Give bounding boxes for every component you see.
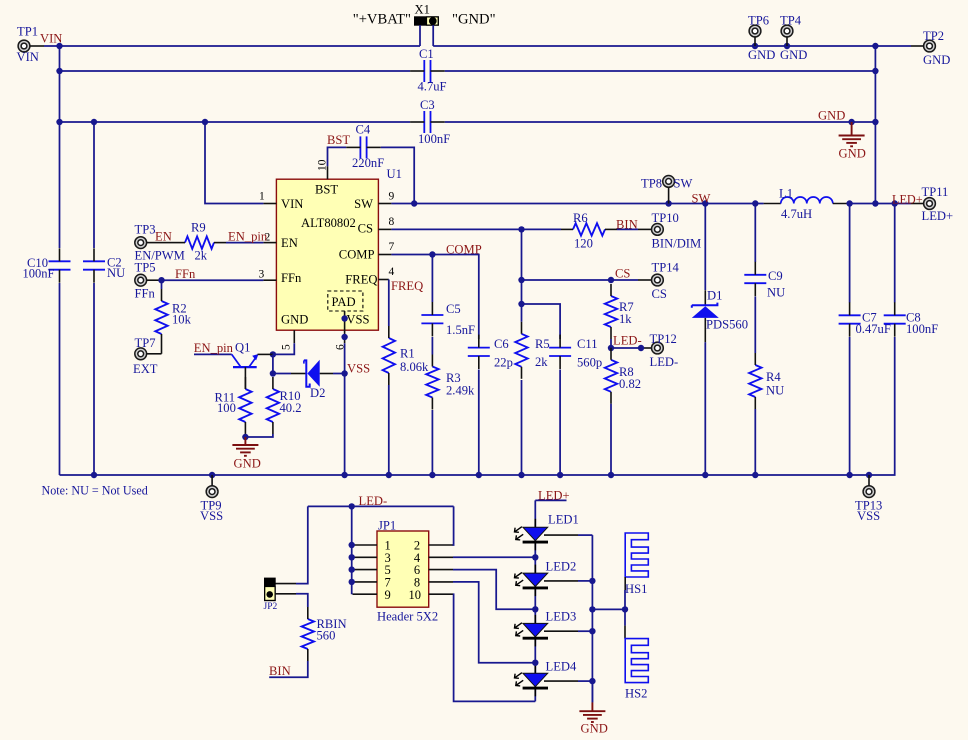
junction vss d2: [341, 370, 347, 376]
wire C7 column: [849, 204, 851, 303]
svg-text:LED2: LED2: [546, 560, 577, 574]
pin JP1-9 stub: [353, 593, 378, 595]
junction TP4 stub: [784, 43, 790, 49]
wire vertical x94: [93, 122, 95, 248]
junction Q1 emitter node: [270, 351, 276, 357]
svg-text:TP12: TP12: [650, 332, 677, 346]
power port GND bottom: [579, 681, 607, 735]
svg-text:NU: NU: [767, 286, 785, 300]
inductor L1: [764, 187, 850, 222]
pin JP2-1 stub: [275, 583, 296, 585]
wire LED1 pad pin: [544, 534, 578, 536]
junction pad node: [341, 315, 347, 321]
wire R9 to EN pin: [226, 242, 263, 244]
svg-text:"+VBAT": "+VBAT": [353, 12, 411, 28]
junction C8 drop: [892, 200, 898, 206]
svg-text:4.7uH: 4.7uH: [781, 207, 812, 221]
junction bus C2: [91, 472, 97, 478]
junction LED- JP1: [349, 503, 355, 509]
wire C9 top: [754, 204, 756, 263]
svg-text:Note: NU = Not Used: Note: NU = Not Used: [42, 484, 148, 498]
junction C7 drop: [846, 200, 852, 206]
svg-text:GND: GND: [818, 109, 845, 123]
svg-text:CS: CS: [652, 287, 667, 301]
capacitor C11: [549, 335, 602, 370]
svg-text:R4: R4: [766, 370, 781, 384]
junction D1 drop: [702, 200, 708, 206]
junction HS: [622, 606, 628, 612]
junction bus D1: [702, 472, 708, 478]
pin 3 stub: [263, 279, 276, 281]
junction LED- TP12: [638, 345, 644, 351]
svg-text:7: 7: [389, 241, 395, 253]
svg-text:EN_pin: EN_pin: [228, 230, 268, 244]
wire row3 right: [445, 121, 876, 123]
svg-text:TP11: TP11: [922, 185, 949, 199]
svg-text:BST: BST: [327, 133, 350, 147]
wire R3 to bus: [431, 410, 433, 475]
pin 1 stub: [263, 203, 276, 205]
diode D1: [692, 289, 748, 343]
junction bus TP13: [866, 472, 872, 478]
junction LED- node: [608, 345, 614, 351]
svg-text:FFn: FFn: [175, 267, 196, 281]
svg-text:CS: CS: [358, 222, 373, 236]
svg-text:BIN/DIM: BIN/DIM: [652, 237, 702, 251]
svg-text:R9: R9: [191, 221, 206, 235]
heatsink HS2: [625, 609, 648, 700]
svg-text:120: 120: [574, 237, 593, 251]
svg-text:4: 4: [389, 266, 395, 278]
wire D2 left: [273, 373, 291, 375]
svg-text:Header 5X2: Header 5X2: [377, 610, 438, 624]
test point TP4: [780, 14, 807, 63]
svg-text:100nF: 100nF: [23, 267, 55, 281]
wire R2 to TP7: [161, 346, 163, 354]
wire vertical x59: [59, 46, 61, 248]
junction BST drop on SW: [411, 200, 417, 206]
test point TP8: [641, 176, 693, 204]
junction right v LED3: [589, 628, 595, 634]
svg-text:560p: 560p: [577, 356, 602, 370]
svg-text:LED-: LED-: [650, 355, 679, 369]
pin JP1-5 stub: [353, 569, 378, 571]
wire GND pin: [273, 343, 294, 354]
svg-text:ALT80802: ALT80802: [301, 216, 356, 230]
wire row2 left: [60, 70, 411, 72]
svg-text:TP14: TP14: [652, 261, 680, 275]
svg-text:C3: C3: [420, 98, 435, 112]
junction C9 drop: [752, 200, 758, 206]
capacitor C9: [744, 262, 785, 300]
svg-text:LED+: LED+: [922, 209, 954, 223]
wire R4 to bus: [754, 409, 756, 475]
svg-text:X1: X1: [415, 3, 430, 17]
wire C7 to bus: [849, 337, 851, 475]
capacitor C4: [346, 123, 384, 171]
svg-text:9: 9: [389, 191, 395, 203]
connector X1: [415, 3, 439, 26]
junction bus C7: [846, 472, 852, 478]
junction CS row2: [518, 277, 524, 283]
test point TP7: [133, 336, 158, 376]
wire R8 to bus: [610, 404, 612, 475]
connector JP1: [377, 519, 438, 624]
svg-text:U1: U1: [387, 167, 402, 181]
svg-text:8.06k: 8.06k: [400, 360, 429, 374]
junction vss node: [341, 334, 347, 340]
test point TP6: [748, 14, 775, 63]
svg-text:GND: GND: [923, 53, 950, 67]
svg-text:C11: C11: [577, 337, 598, 351]
wire GND top: [433, 45, 911, 47]
junction bus VSS: [341, 472, 347, 478]
wire FREQ: [388, 280, 390, 327]
svg-text:10: 10: [409, 588, 422, 602]
wire X1 pin1: [419, 25, 421, 46]
wire R6 to TP10: [617, 228, 638, 230]
junction LED node3: [532, 660, 538, 666]
svg-text:SW: SW: [674, 177, 693, 191]
capacitor C5: [421, 302, 475, 337]
resistor R9: [173, 221, 226, 263]
LED LED3: [515, 610, 577, 647]
wire LED- to TP12: [611, 347, 638, 349]
svg-text:Q1: Q1: [235, 341, 250, 355]
svg-text:LED3: LED3: [546, 610, 577, 624]
svg-text:HS2: HS2: [625, 687, 647, 701]
wire COMP: [391, 255, 478, 340]
svg-text:EN_pin: EN_pin: [194, 341, 234, 355]
connector JP2: [264, 578, 278, 612]
svg-text:CS: CS: [615, 267, 630, 281]
junction row3 x94: [91, 119, 97, 125]
capacitor C1: [410, 47, 446, 94]
junction R7 top: [608, 277, 614, 283]
wire CS to TP14: [522, 279, 639, 281]
svg-text:GND: GND: [748, 48, 775, 62]
resistor R8: [605, 348, 641, 404]
capacitor C2: [83, 248, 125, 282]
svg-text:R5: R5: [535, 337, 550, 351]
junction bus C6: [476, 472, 482, 478]
pin 7 stub: [378, 254, 391, 256]
junction bus R4: [752, 472, 758, 478]
test point TP11: [911, 185, 953, 223]
wire RBIN to BIN: [269, 661, 308, 677]
svg-text:C9: C9: [768, 269, 783, 283]
power port GND Q1: [232, 437, 260, 471]
svg-text:PDS560: PDS560: [706, 318, 748, 332]
test point TP9: [200, 475, 223, 523]
svg-text:3: 3: [259, 269, 265, 281]
junction row2 left: [56, 68, 62, 74]
test point TP12: [650, 332, 679, 369]
svg-text:C6: C6: [494, 337, 509, 351]
svg-text:8: 8: [389, 216, 395, 228]
svg-text:1k: 1k: [619, 312, 632, 326]
test point TP14: [652, 261, 680, 302]
test point TP13: [855, 475, 882, 523]
junction LED node2: [532, 606, 538, 612]
wire LED2 pad pin: [544, 580, 578, 582]
svg-text:LED-: LED-: [613, 334, 642, 348]
pin 10 stub: [327, 166, 329, 179]
svg-text:2.49k: 2.49k: [446, 384, 475, 398]
wire LED- to JP2: [296, 506, 308, 583]
wire LED string: [534, 500, 536, 701]
pin JP1-10 stub: [429, 593, 453, 595]
svg-text:100: 100: [217, 401, 236, 415]
svg-text:FREQ: FREQ: [391, 279, 423, 293]
svg-text:JP1: JP1: [378, 519, 396, 533]
svg-text:"GND": "GND": [452, 12, 496, 28]
wire FFn: [160, 279, 263, 281]
svg-text:40.2: 40.2: [280, 401, 302, 415]
junction R10 D2: [270, 370, 276, 376]
junction COMP: [429, 251, 435, 257]
svg-text:100nF: 100nF: [418, 132, 450, 146]
wire C5 to R3: [431, 337, 433, 355]
wire VSS pin to bus: [344, 343, 346, 475]
svg-text:NU: NU: [107, 266, 125, 280]
svg-text:TP6: TP6: [748, 14, 769, 28]
wire LED+ label stub: [535, 499, 566, 501]
wire HS tap: [592, 608, 625, 610]
wire LED right vertical: [591, 535, 593, 702]
wire C8 column: [894, 204, 896, 303]
pin 8 stub: [378, 228, 391, 230]
svg-text:SW: SW: [354, 197, 373, 211]
junction jp1 left: [349, 554, 355, 560]
svg-text:2k: 2k: [195, 249, 208, 263]
junction row3 x59: [56, 119, 62, 125]
svg-text:1: 1: [259, 191, 265, 203]
svg-text:BST: BST: [315, 183, 338, 197]
junction bus C11: [557, 472, 563, 478]
svg-text:EN: EN: [155, 230, 172, 244]
svg-text:VIN: VIN: [281, 197, 303, 211]
pin 2 stub: [263, 242, 276, 244]
resistor R4: [749, 353, 784, 409]
pin JP1-3 stub: [353, 556, 378, 558]
LED LED4: [515, 660, 577, 697]
resistor RBIN: [302, 607, 347, 661]
heatsink HS1: [625, 533, 648, 609]
resistor R6: [561, 211, 617, 251]
resistor R2: [155, 280, 191, 346]
svg-text:100nF: 100nF: [906, 322, 938, 336]
svg-text:TP4: TP4: [780, 14, 802, 28]
junction TP6 stub: [752, 43, 758, 49]
LED LED2: [515, 560, 577, 597]
test point TP2: [911, 29, 950, 67]
svg-text:TP8: TP8: [641, 177, 662, 191]
wire R10 bottom: [245, 434, 273, 437]
pin JP1-6 stub: [429, 569, 453, 571]
wire C4 to SW: [381, 147, 414, 203]
svg-text:PAD: PAD: [332, 295, 356, 309]
svg-text:TP7: TP7: [135, 336, 156, 350]
junction jp1 left: [349, 542, 355, 548]
wire D1 top: [704, 204, 706, 291]
svg-text:C4: C4: [356, 123, 371, 137]
svg-text:LED1: LED1: [548, 513, 579, 527]
svg-text:TP2: TP2: [923, 29, 944, 43]
pin JP1-4 stub: [429, 556, 453, 558]
wire R11 bottom: [244, 434, 246, 437]
svg-text:GND: GND: [581, 722, 608, 736]
junction LED node1: [532, 554, 538, 560]
resistor R10: [267, 377, 302, 434]
pad PAD dashed box: [328, 291, 363, 311]
svg-text:C5: C5: [446, 302, 461, 316]
svg-text:VIN: VIN: [17, 50, 39, 64]
junction row3 x205: [202, 119, 208, 125]
test point TP3: [135, 223, 185, 263]
wire BST: [328, 147, 347, 166]
capacitor C3: [410, 98, 450, 146]
resistor R11: [215, 377, 252, 434]
junction R11 gnd: [242, 434, 248, 440]
wire LED4 pad pin: [544, 680, 578, 682]
wire R1 to bus: [388, 385, 390, 475]
wire C11 tap: [522, 304, 561, 339]
svg-text:GND: GND: [839, 147, 866, 161]
svg-text:L1: L1: [779, 187, 793, 201]
svg-text:R6: R6: [573, 211, 588, 225]
pin JP1-7 stub: [353, 581, 378, 583]
wire EN_pin at Q1: [194, 353, 232, 355]
test point TP10: [652, 211, 702, 251]
pin JP1-1 stub: [353, 544, 378, 546]
wire CS row: [391, 228, 561, 230]
junction at 875,46: [872, 43, 878, 49]
svg-text:VSS: VSS: [200, 509, 223, 523]
svg-text:22p: 22p: [494, 356, 513, 370]
power port GND top right: [839, 119, 866, 161]
wire pin4 to LED node1: [453, 556, 535, 558]
wire C9 to R4: [754, 297, 756, 354]
wire VIN branch x205: [205, 122, 263, 204]
junction at 59.5,46: [56, 43, 62, 49]
junction bus R8: [608, 472, 614, 478]
wire JP2 to RBIN: [296, 594, 308, 607]
pin 5 GND stub: [293, 330, 295, 343]
wire JP1 left pins vertical: [351, 506, 353, 594]
wire TP3 to R9: [160, 242, 173, 244]
svg-text:0.82: 0.82: [619, 377, 641, 391]
junction bus R5: [518, 472, 524, 478]
wire pin2 up: [453, 506, 454, 545]
wire D1 to bus: [704, 342, 706, 475]
wire R5 to bus: [521, 380, 523, 475]
transistor Q1: [232, 341, 273, 390]
wire VBAT top: [44, 45, 420, 47]
wire vertical x875: [874, 46, 876, 204]
wire row2 right: [445, 70, 876, 72]
svg-text:1.5nF: 1.5nF: [446, 323, 475, 337]
svg-text:D1: D1: [707, 289, 722, 303]
svg-text:560: 560: [317, 629, 336, 643]
svg-text:TP1: TP1: [17, 25, 38, 39]
junction x875 end: [872, 200, 878, 206]
svg-text:LED+: LED+: [892, 193, 923, 207]
svg-text:9: 9: [384, 588, 390, 602]
resistor R5: [515, 322, 549, 379]
svg-text:VSS: VSS: [346, 313, 369, 327]
junction CS x521: [518, 226, 524, 232]
svg-text:JP2: JP2: [264, 602, 278, 612]
svg-text:TP3: TP3: [135, 223, 156, 237]
junction right v LED4: [589, 678, 595, 684]
junction row3 x875: [872, 119, 878, 125]
wire pin8 to LED node3: [453, 582, 535, 663]
wire C11 to bus: [559, 370, 561, 476]
wire CS drop: [521, 229, 523, 321]
junction jp1 left: [349, 566, 355, 572]
junction bus R1: [386, 472, 392, 478]
svg-text:BIN: BIN: [616, 218, 638, 232]
junction TP8 stub: [665, 200, 671, 206]
svg-text:TP5: TP5: [135, 261, 156, 275]
svg-text:R1: R1: [400, 347, 415, 361]
test point TP5: [135, 261, 162, 301]
wire SW row: [391, 203, 763, 205]
svg-text:5: 5: [281, 344, 293, 350]
LED LED1: [515, 513, 579, 551]
svg-text:LED4: LED4: [546, 660, 577, 674]
pin JP2-2 stub: [275, 593, 296, 595]
svg-text:D2: D2: [310, 386, 325, 400]
wire LED+ row: [850, 203, 911, 205]
svg-text:GND: GND: [234, 457, 261, 471]
svg-text:SW: SW: [692, 192, 711, 206]
junction bus R3: [429, 472, 435, 478]
svg-text:GND: GND: [281, 313, 308, 327]
pin JP1-8 stub: [429, 581, 453, 583]
wire LED3 pad pin: [544, 630, 578, 632]
svg-text:GND: GND: [780, 48, 807, 62]
resistor R1: [383, 326, 429, 385]
svg-text:BIN: BIN: [269, 664, 291, 678]
pin JP1-2 stub: [429, 544, 453, 546]
svg-text:220nF: 220nF: [352, 156, 384, 170]
svg-text:FFn: FFn: [135, 287, 156, 301]
capacitor C8: [884, 302, 939, 336]
resistor R7: [605, 284, 634, 339]
capacitor C6: [468, 335, 513, 370]
svg-text:HS1: HS1: [625, 582, 647, 596]
pin 9 stub: [378, 203, 391, 205]
svg-text:10k: 10k: [172, 313, 192, 327]
wire COMP to C5: [431, 255, 433, 303]
svg-text:VSS: VSS: [347, 362, 370, 376]
junction right v HS: [589, 606, 595, 612]
wire pin10 to LED4 cathode: [453, 594, 535, 701]
svg-text:FREQ: FREQ: [345, 273, 377, 287]
svg-text:COMP: COMP: [446, 243, 482, 257]
wire X1 pin2: [432, 25, 434, 46]
junction jp1 left: [349, 579, 355, 585]
wire LED- top: [308, 505, 454, 507]
wire C8 to bus corner: [60, 337, 895, 475]
wire R10 top: [272, 354, 274, 373]
wire C6 to bus: [478, 370, 480, 476]
svg-text:NU: NU: [766, 384, 784, 398]
svg-text:EN: EN: [281, 236, 298, 250]
junction C11 tap: [518, 301, 524, 307]
